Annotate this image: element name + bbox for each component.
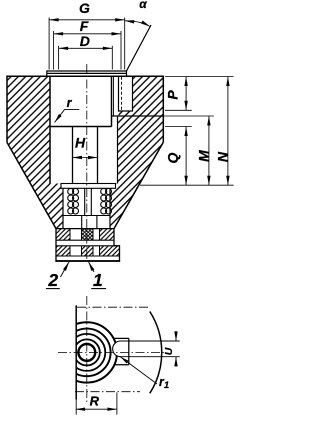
- flange outline: [7, 76, 163, 142]
- svg-text:P: P: [165, 90, 181, 100]
- svg-text:1: 1: [93, 270, 103, 290]
- spring left coils: [68, 189, 79, 215]
- svg-text:U: U: [163, 347, 175, 355]
- extension line washer y=185.2: [140, 184, 234, 186]
- extension line step y=126.5: [165, 126, 192, 128]
- bore left wall: [49, 76, 51, 183]
- centerline bottom view vertical: [86, 296, 88, 402]
- svg-text:R: R: [90, 394, 100, 409]
- bore circle: [78, 344, 95, 361]
- dimension F: [54, 31, 121, 70]
- flat chord line: [75, 305, 77, 399]
- svg-text:Q: Q: [165, 152, 181, 163]
- top plate: [47, 71, 127, 76]
- dimension M: [208, 116, 210, 185]
- svg-text:D: D: [80, 33, 90, 49]
- bottom view horizontal centerline: [58, 351, 166, 353]
- key tongue rounded end r1: [113, 341, 121, 357]
- extension line top right y=76.5: [165, 76, 234, 78]
- svg-text:G: G: [79, 0, 90, 16]
- extension line shoulder y=116: [163, 115, 214, 117]
- rod head: [81, 216, 83, 229]
- ring circle r13: [74, 339, 100, 365]
- outer circle: [57, 322, 117, 382]
- dimension G: [49, 18, 125, 70]
- lower tangent dash-dot: [75, 391, 140, 393]
- large radius arc: [150, 312, 162, 394]
- ring circle r23.8: [63, 329, 111, 377]
- svg-text:F: F: [80, 18, 89, 34]
- extension line slot bottom y=110.3: [165, 109, 192, 111]
- counterbore step line: [50, 126, 112, 128]
- dimension U extension lines: [121, 340, 180, 342]
- svg-text:α: α: [139, 0, 147, 11]
- key slot walls: [119, 76, 133, 111]
- dimension D: [59, 46, 113, 70]
- spring cavity bottom line: [63, 215, 110, 217]
- dimension R: [116, 392, 118, 414]
- angle alpha arc: [125, 21, 151, 27]
- upper tangent dash-dot: [77, 306, 151, 308]
- washer plate: [61, 184, 116, 189]
- key tongue white-out: [113, 341, 130, 357]
- hatched body right section: [110, 76, 163, 228]
- radius r1 leader: [120, 357, 157, 385]
- lower cavity walls: [62, 188, 64, 228]
- bore right wall: [111, 76, 113, 126]
- hatched body left section: [7, 76, 63, 228]
- cone left slant: [7, 142, 56, 228]
- spring right coils: [101, 189, 112, 215]
- dimension N: [227, 77, 229, 186]
- ejector rod: [84, 188, 86, 215]
- angle alpha leg: [127, 25, 152, 71]
- dimension U: [175, 331, 177, 341]
- svg-text:M: M: [196, 150, 212, 162]
- bottom bushing block outline: [56, 229, 120, 261]
- dimension H: [73, 157, 98, 159]
- svg-text:2: 2: [47, 270, 58, 290]
- svg-text:N: N: [215, 151, 231, 162]
- svg-text:H: H: [75, 135, 86, 151]
- ring circle r18.5: [68, 334, 105, 371]
- flange inner shoulder line y=116: [112, 115, 164, 117]
- dimension P: [185, 77, 187, 111]
- hidden line in slot: [121, 77, 123, 111]
- punch stem walls: [72, 127, 74, 184]
- right cavity wall: [117, 116, 119, 184]
- key tab outline: [113, 338, 128, 364]
- centerline main view: [86, 64, 88, 261]
- dimension Q: [185, 127, 187, 186]
- bottom bushing block hatched cells: [56, 229, 70, 241]
- cone right slant: [114, 142, 163, 228]
